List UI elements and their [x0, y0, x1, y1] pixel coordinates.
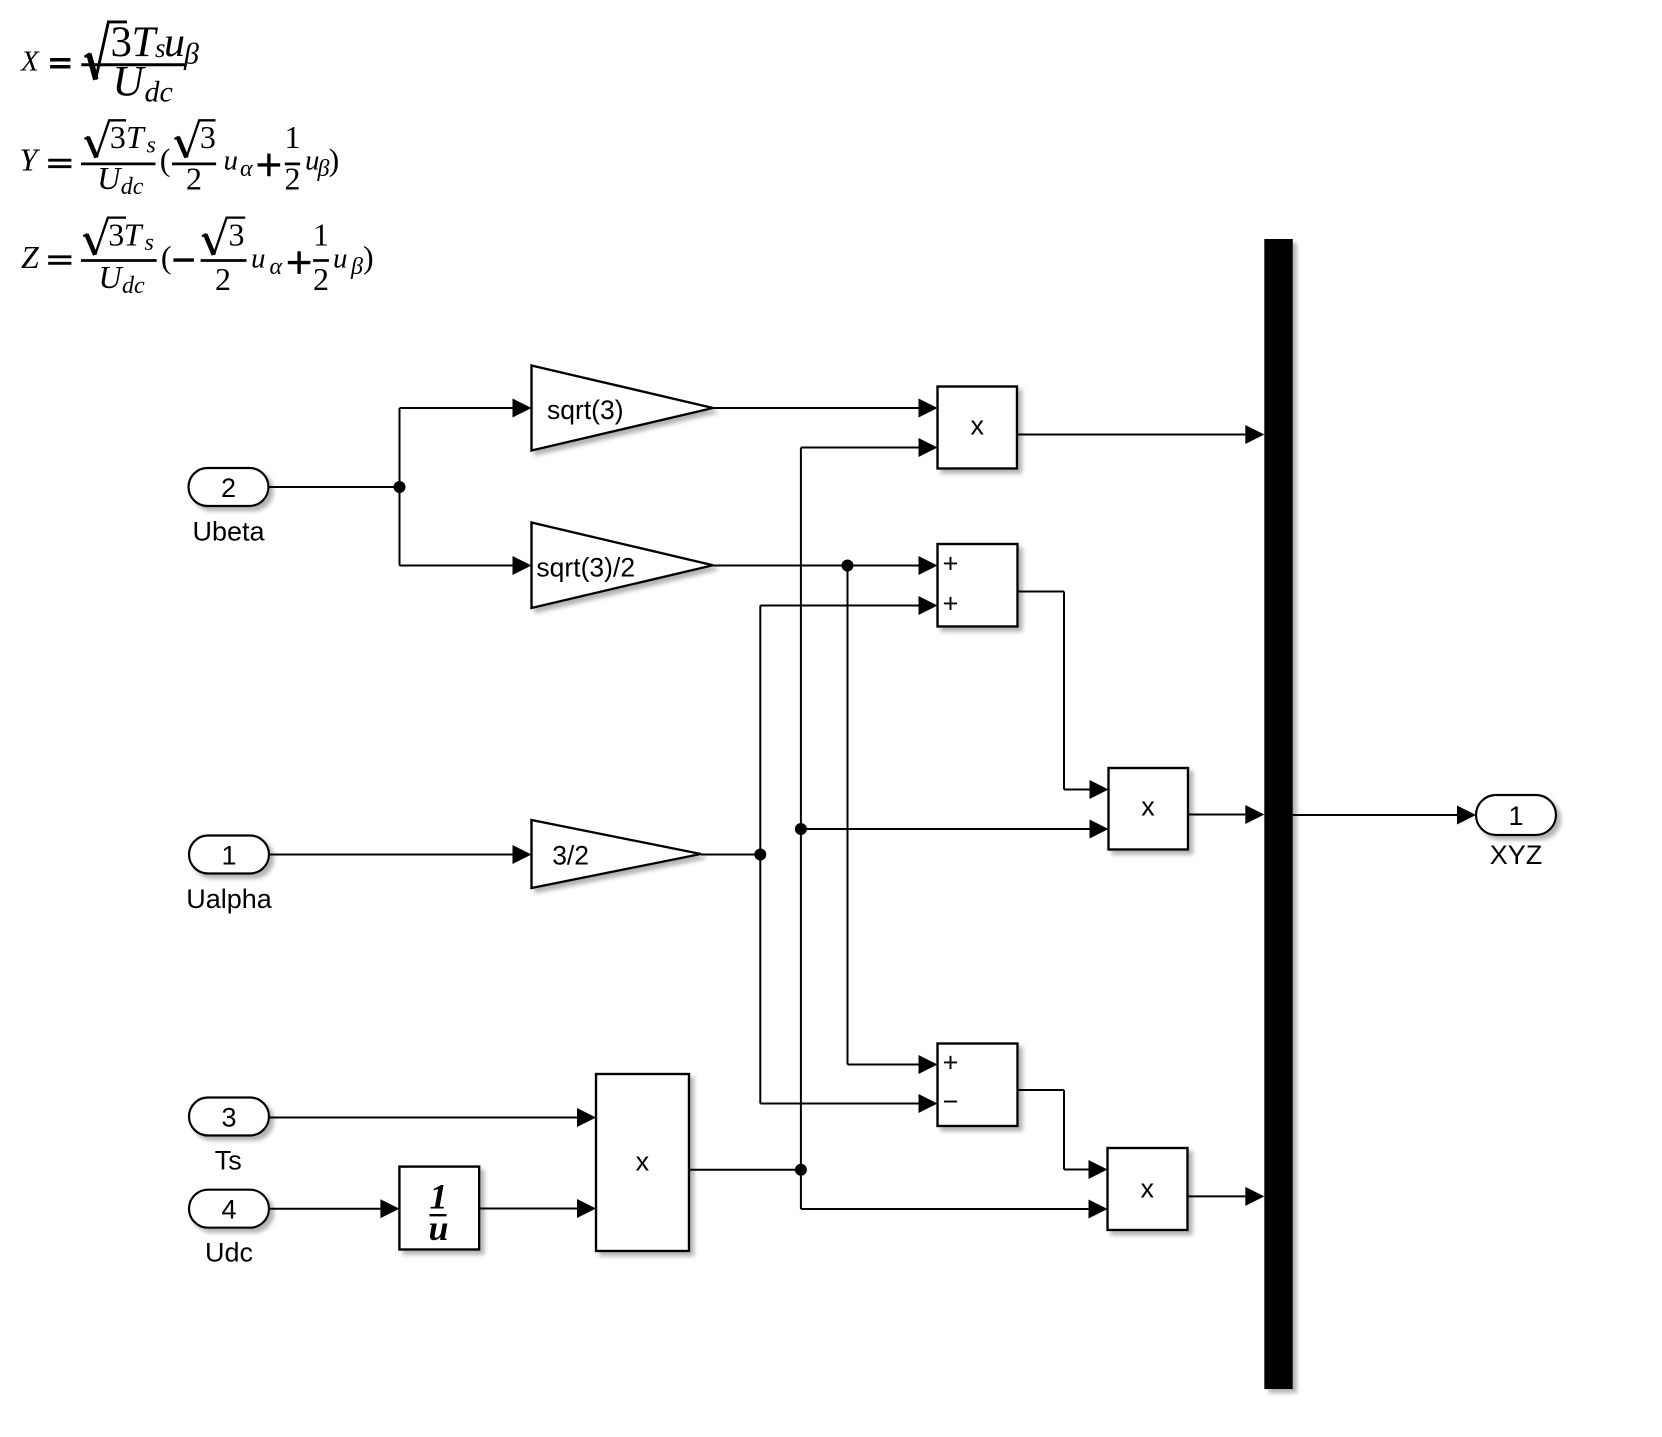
- inport 1 Ualpha: [189, 836, 269, 874]
- svg-text:dc: dc: [122, 273, 145, 299]
- inport 3 Ts: [189, 1098, 269, 1136]
- svg-text:2: 2: [285, 160, 301, 196]
- svg-text:4: 4: [221, 1195, 236, 1225]
- wire gain sqrt(3)/2 to sum Y input 1: [713, 556, 938, 575]
- wire branch down to gain sqrt(3)/2: [400, 487, 532, 575]
- label Udc: [205, 1238, 253, 1268]
- svg-text:u: u: [224, 145, 239, 177]
- svg-text:x: x: [636, 1147, 650, 1177]
- svg-text:2: 2: [215, 261, 231, 297]
- svg-text:2: 2: [186, 160, 202, 196]
- svg-text:2: 2: [313, 261, 329, 297]
- svg-text:U: U: [99, 259, 124, 295]
- junction dot riser to product Y: [795, 823, 807, 835]
- junction dot Ubeta branch: [394, 481, 406, 493]
- wire Ualpha to gain 3/2: [269, 845, 532, 864]
- product block X (sqrt(3)u_beta * Ts/Udc): [938, 387, 1018, 469]
- svg-text:dc: dc: [121, 174, 144, 200]
- wire product Y output to mux input 2: [1188, 805, 1264, 824]
- svg-text:Udc: Udc: [205, 1238, 253, 1268]
- svg-text:sqrt(3): sqrt(3): [547, 395, 624, 425]
- gain 3/2: [532, 820, 702, 888]
- wire sqrt(3)/2 branch down to sum Z plus input: [848, 566, 938, 1075]
- svg-text:Ualpha: Ualpha: [186, 884, 273, 914]
- label Ubeta: [192, 517, 265, 547]
- svg-text:+: +: [943, 1048, 959, 1078]
- formula X = sqrt(3)*Ts*u_beta/Udc: [20, 19, 199, 109]
- svg-text:x: x: [1141, 1174, 1155, 1204]
- svg-text:1: 1: [221, 841, 236, 871]
- svg-text:1: 1: [1508, 801, 1523, 831]
- svg-text:(: (: [161, 239, 172, 275]
- formula Y = sqrt(3)Ts/Udc*(sqrt(3)/2*u_alpha + 1/2*u_beta): [20, 119, 340, 200]
- svg-text:Ts: Ts: [215, 1146, 242, 1176]
- label Ts: [215, 1146, 242, 1176]
- wire gain 3/2 to branch junction: [701, 854, 760, 856]
- svg-text:+: +: [943, 589, 959, 619]
- svg-text:β: β: [350, 254, 363, 280]
- svg-text:s: s: [145, 230, 154, 256]
- wire Ts to product: [269, 1108, 596, 1127]
- junction dot product output: [795, 1164, 807, 1176]
- svg-text:x: x: [1141, 792, 1155, 822]
- wire Ubeta to branch junction: [269, 486, 400, 488]
- wire product Z output to mux input 3: [1188, 1187, 1265, 1206]
- wire sum Y output to product Y input 1: [1018, 592, 1109, 800]
- inport 4 Udc: [189, 1190, 269, 1228]
- svg-text:x: x: [970, 411, 984, 441]
- wire riser product output up to product X input 2: [801, 438, 938, 1170]
- inport 2 Ubeta: [189, 468, 269, 506]
- svg-text:3: 3: [200, 119, 216, 155]
- svg-text:X: X: [20, 46, 40, 78]
- svg-text:U: U: [97, 160, 122, 196]
- svg-text:3: 3: [221, 1103, 236, 1133]
- outport 1 XYZ: [1476, 795, 1556, 835]
- junction dot 3/2 output branch: [754, 849, 766, 861]
- wire 3/2 branch down to sum Z minus input: [760, 855, 937, 1114]
- svg-text:u: u: [333, 243, 348, 275]
- svg-text:(: (: [160, 142, 171, 178]
- formula Z = sqrt(3)Ts/Udc*(-sqrt(3)/2*u_alpha + 1/2*u_beta): [21, 216, 374, 299]
- svg-text:): ): [363, 239, 374, 275]
- wire gain sqrt(3) to product X input 1: [713, 399, 938, 418]
- svg-text:β: β: [317, 156, 330, 182]
- wire 1/u to product input 2: [479, 1199, 596, 1218]
- svg-text:α: α: [270, 254, 283, 280]
- svg-text:sqrt(3)/2: sqrt(3)/2: [536, 553, 635, 583]
- svg-text:3: 3: [229, 216, 245, 252]
- label Ualpha: [186, 884, 273, 914]
- svg-text:u: u: [164, 20, 185, 66]
- svg-text:−: −: [943, 1087, 959, 1117]
- wire Udc to reciprocal 1/u: [269, 1199, 399, 1218]
- wire product Ts/Udc output to junction: [689, 1169, 801, 1171]
- svg-text:2: 2: [221, 473, 236, 503]
- label XYZ: [1490, 840, 1543, 870]
- math function block 1/u (reciprocal): [399, 1167, 479, 1250]
- wire product output down to product Z input 2: [801, 1170, 1108, 1219]
- svg-text:1: 1: [313, 216, 329, 252]
- svg-text:u: u: [251, 243, 266, 275]
- svg-text:dc: dc: [145, 76, 173, 109]
- svg-text:u: u: [428, 1208, 448, 1248]
- svg-text:3/2: 3/2: [552, 841, 589, 871]
- svg-text:T: T: [124, 216, 144, 252]
- product block Y: [1109, 768, 1189, 850]
- svg-text:Ubeta: Ubeta: [192, 517, 265, 547]
- svg-text:T: T: [126, 119, 146, 155]
- wire product X output to mux input 1: [1017, 425, 1264, 444]
- svg-text:β: β: [183, 38, 199, 71]
- svg-text:+: +: [943, 549, 959, 579]
- wire branch up to gain sqrt(3): [400, 399, 532, 488]
- product block Z: [1108, 1148, 1188, 1230]
- product block Ts*(1/Udc): [596, 1074, 689, 1251]
- sum block Y (plus plus): [938, 544, 1018, 627]
- svg-text:Y: Y: [20, 142, 41, 178]
- svg-text:α: α: [240, 156, 253, 182]
- gain sqrt(3)/2: [532, 523, 714, 609]
- svg-text:XYZ: XYZ: [1490, 840, 1543, 870]
- wire mux output to outport XYZ: [1293, 806, 1476, 825]
- svg-text:3: 3: [110, 119, 126, 155]
- junction dot on sqrt(3)/2 output: [842, 560, 854, 572]
- svg-text:s: s: [147, 133, 156, 159]
- sum block Z (plus minus): [938, 1044, 1018, 1127]
- wire sum Z output to product Z input 1: [1018, 1090, 1108, 1179]
- svg-text:3: 3: [108, 216, 124, 252]
- mux (3-to-1, black bar): [1264, 239, 1293, 1389]
- gain sqrt(3): [532, 366, 714, 451]
- svg-text:U: U: [113, 59, 147, 106]
- svg-text:1: 1: [285, 119, 301, 155]
- wire 3/2 branch up to sum Y input 2: [760, 596, 937, 855]
- wire riser branch to product Y input 2: [801, 820, 1109, 839]
- svg-text:Z: Z: [21, 239, 40, 275]
- svg-text:): ): [329, 142, 340, 178]
